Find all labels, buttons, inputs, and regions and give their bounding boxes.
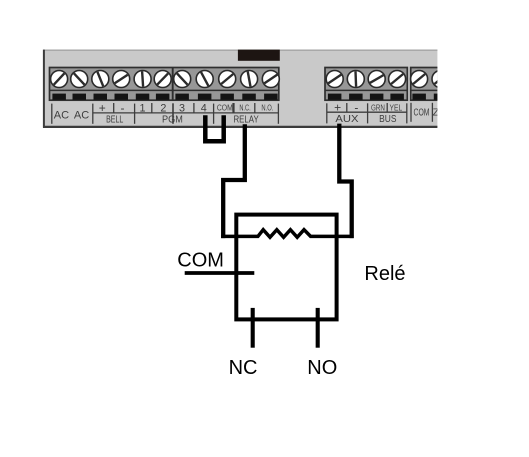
svg-text:BUS: BUS xyxy=(379,113,396,125)
screw terminal PGM4 xyxy=(196,71,213,88)
label RELAY xyxy=(234,115,259,126)
wire W3: AUX+ terminal to relay coil right xyxy=(339,124,351,239)
wire W2: RELAY N.C. terminal to relay coil left xyxy=(223,124,245,238)
screw terminal BUS GRN xyxy=(368,71,385,88)
svg-text:Relé: Relé xyxy=(364,263,405,285)
screw terminal RELAY NC xyxy=(241,71,258,88)
screw terminal BUS YEL xyxy=(389,71,406,88)
label + (AUX) xyxy=(334,100,341,114)
label - (BELL) xyxy=(121,101,125,115)
label COM (RELAY) xyxy=(217,104,233,113)
connector bar (black) xyxy=(238,50,280,61)
label N.C. xyxy=(239,104,250,113)
screw terminal PGM2 xyxy=(154,71,171,88)
NC pin lead xyxy=(251,308,255,348)
label 3 (PGM) xyxy=(179,103,185,115)
svg-text:COM: COM xyxy=(177,250,224,272)
terminal block TB1 (AC BELL PGM RELAY) xyxy=(50,68,279,101)
svg-text:COM: COM xyxy=(414,108,430,119)
svg-text:N.C.: N.C. xyxy=(239,104,250,113)
label NC xyxy=(229,357,258,379)
COM lead wire xyxy=(185,271,255,275)
relay K1 body xyxy=(236,215,336,320)
svg-text:4: 4 xyxy=(201,103,207,115)
screw terminal BELL+ xyxy=(92,71,109,88)
svg-text:AC: AC xyxy=(74,110,89,122)
TB1 wire openings xyxy=(52,94,277,100)
screw terminal AUX- xyxy=(347,71,364,88)
screw terminal PGM1 xyxy=(134,71,151,88)
TB3 wire openings xyxy=(412,94,447,100)
svg-text:+: + xyxy=(99,101,106,115)
label - (AUX) xyxy=(354,100,358,114)
screw terminal AC2 xyxy=(71,71,88,88)
svg-text:AUX: AUX xyxy=(335,113,358,125)
TB2 wire openings xyxy=(328,94,404,100)
label 1 (PGM) xyxy=(139,103,145,115)
screw terminal COM xyxy=(411,71,428,88)
label + (BELL) xyxy=(99,101,106,115)
wire W1: jumper PGM4 to RELAY COM xyxy=(205,115,223,141)
terminal block TB2 (AUX BUS) xyxy=(325,68,407,101)
label Z (cut off) xyxy=(433,107,445,119)
relay K1 coil (zigzag) xyxy=(221,230,353,238)
label AC AC xyxy=(54,110,89,122)
svg-text:N.O.: N.O. xyxy=(261,104,273,113)
label YEL xyxy=(390,103,403,112)
screw terminal RELAY NO xyxy=(262,71,279,88)
screw terminal Z (cut) xyxy=(432,71,449,88)
label COM (TB3) xyxy=(414,108,430,119)
label NO xyxy=(307,357,337,379)
label BELL xyxy=(106,115,124,126)
screw terminal RELAY COM xyxy=(219,71,236,88)
svg-text:NO: NO xyxy=(307,357,337,379)
label 4 (PGM) xyxy=(201,103,207,115)
label COM (relay common) xyxy=(177,250,224,272)
label N.O. xyxy=(261,104,273,113)
svg-text:+: + xyxy=(334,100,341,114)
svg-text:2: 2 xyxy=(160,103,166,115)
NO pin lead xyxy=(316,308,320,348)
svg-text:GRN: GRN xyxy=(371,103,385,112)
screw terminal AC1 xyxy=(51,71,68,88)
svg-text:RELAY: RELAY xyxy=(234,115,259,126)
svg-text:NC: NC xyxy=(229,357,258,379)
label strip ticks and rules xyxy=(52,103,433,124)
label 2 (PGM) xyxy=(160,103,166,115)
svg-text:YEL: YEL xyxy=(390,103,403,112)
terminal block TB3 (COM Z... cut off) xyxy=(411,68,444,101)
screw terminal AUX+ xyxy=(326,71,343,88)
label Relé xyxy=(364,263,405,285)
svg-text:1: 1 xyxy=(139,103,145,115)
screw terminal BELL- xyxy=(113,71,130,88)
svg-text:AC: AC xyxy=(54,110,69,122)
label AUX xyxy=(335,113,358,125)
svg-text:-: - xyxy=(121,101,125,115)
svg-text:PGM: PGM xyxy=(162,115,183,126)
label GRN xyxy=(371,103,385,112)
svg-text:COM: COM xyxy=(217,104,233,113)
svg-text:-: - xyxy=(354,100,358,114)
screw terminal PGM3 xyxy=(174,71,191,88)
label BUS xyxy=(379,113,396,125)
label PGM xyxy=(162,115,183,126)
svg-text:3: 3 xyxy=(179,103,185,115)
control panel board xyxy=(43,50,437,128)
svg-text:BELL: BELL xyxy=(106,115,124,126)
